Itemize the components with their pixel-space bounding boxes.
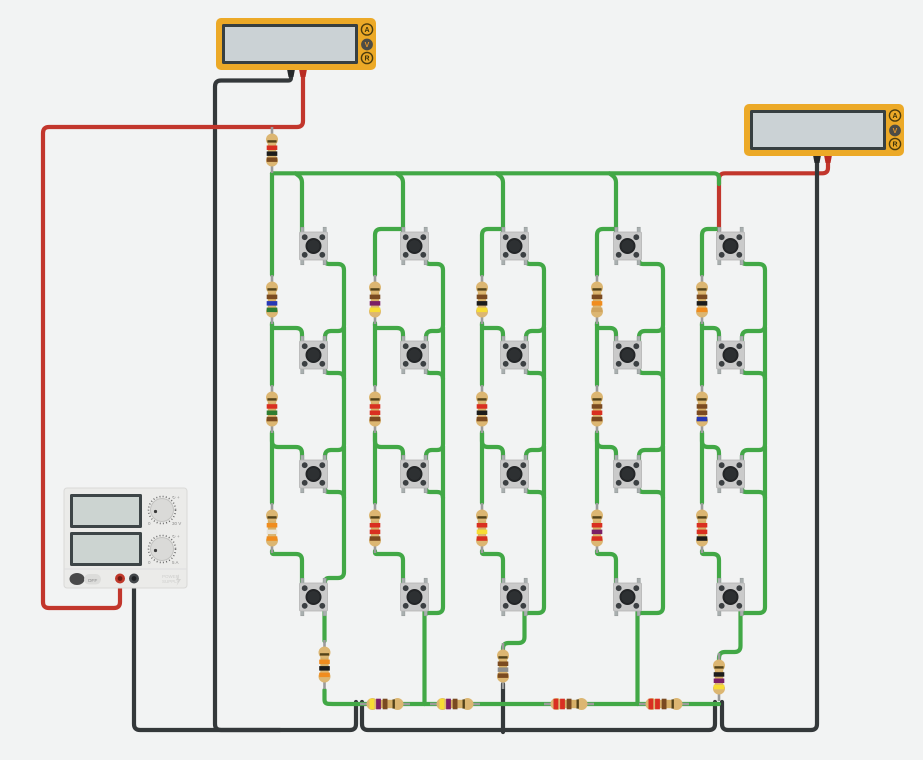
resistor R ladder col1 b <box>266 385 278 433</box>
wire green: tap col1 row3 <box>272 432 302 463</box>
svg-text:OFF: OFF <box>88 578 98 584</box>
wire green: tap col1 row4 <box>272 551 302 586</box>
wire green: tap col4 row4 <box>597 551 616 586</box>
wire green: tap col2 row3 <box>375 432 403 463</box>
pushbutton S11 row1 col1 <box>300 227 328 265</box>
wire green: rail col2 seg3 <box>373 433 377 503</box>
wire green: rail col1 top segment <box>270 173 274 275</box>
wire green: tap col1 row2 <box>272 323 302 344</box>
wire green: tap col3 row2 <box>482 323 503 344</box>
resistor R ladder col3 c <box>476 503 488 553</box>
wire black: node G2 to node G3 <box>503 702 715 730</box>
pushbutton S44 row4 col4 <box>614 578 642 616</box>
wire green: tap col4 row3 <box>597 432 616 463</box>
wire green: rail col3 seg2 <box>480 324 484 385</box>
wire black: node G1 to node G2 <box>362 702 503 730</box>
wire green: chain col1 row1-row2 <box>325 256 344 344</box>
wire green: chain col4 row2-row3 <box>639 365 663 463</box>
multimeter M2 (right) <box>744 104 904 163</box>
wire green: tap col3 row4 <box>482 551 503 586</box>
wire green: top bus <box>272 173 719 184</box>
wire green: chain col3 row2-row3 <box>526 365 544 463</box>
wire green: chain col5 row3-row4 <box>742 484 765 613</box>
pushbutton S32 row3 col2 <box>401 455 429 493</box>
wire green: bus drop col1 <box>296 173 303 235</box>
wire green: bus drop col4 <box>610 173 617 235</box>
wire green: tap col5 row3 <box>702 432 719 463</box>
resistor R bottom 4 <box>639 698 689 710</box>
multimeter M1 (top) <box>216 18 376 77</box>
wire green: col3 out to R-col3-bottom <box>503 609 525 654</box>
pushbutton S24 row2 col4 <box>614 336 642 374</box>
resistor R col1 bottom <box>319 640 331 689</box>
resistor R ladder col4 c <box>591 503 603 553</box>
wire green: col2 out to bottom bus <box>422 609 426 704</box>
wire green: chain col3 vertical at row3 <box>542 446 546 498</box>
resistor R ladder col2 b <box>369 385 381 433</box>
wire green: chain col1 row2-row3 <box>325 365 344 463</box>
pushbutton S12 row1 col2 <box>401 227 429 265</box>
wire black: PSU GND to bottom bus <box>134 582 280 730</box>
resistor R ladder col3 b <box>476 385 488 433</box>
wire green: col4 out to bottom bus <box>635 609 639 704</box>
wire green: rail col5 seg3 <box>700 433 704 503</box>
resistor R ladder col5 c <box>696 503 708 553</box>
wire green: tap col5 row4 <box>702 551 719 586</box>
svg-text:5 A: 5 A <box>172 560 179 565</box>
wire green: tap col5 row2 <box>702 323 719 344</box>
wire green: chain col4 row1-row2 <box>639 256 663 344</box>
wire green: rail col1 seg2 <box>270 324 274 385</box>
resistor R bottom 2 <box>430 698 480 710</box>
wire green: tap col2 row2 <box>375 323 403 344</box>
wire green: chain col4 row3-row4 <box>639 484 663 613</box>
pushbutton S41 row4 col1 <box>300 578 328 616</box>
pushbutton S42 row4 col2 <box>401 578 429 616</box>
pushbutton S45 row4 col5 <box>717 578 745 616</box>
pushbutton S35 row3 col5 <box>717 455 745 493</box>
wire green: chain col3 vertical at row2 <box>542 327 546 379</box>
pushbutton S22 row2 col2 <box>401 336 429 374</box>
pushbutton S13 row1 col3 <box>501 227 529 265</box>
svg-text:A: A <box>892 113 897 120</box>
wire green: col1 out to R-col1-bottom <box>322 609 326 641</box>
wire green: rail col2 feed <box>375 229 403 275</box>
wire red: PSU V+ to multimeter1 red probe <box>43 75 303 608</box>
wire green: tap col3 row3 <box>482 432 503 463</box>
resistor R ladder col3 a <box>476 275 488 324</box>
svg-text:R: R <box>892 141 897 148</box>
wire green: rail col4 seg3 <box>595 433 599 503</box>
pushbutton S21 row2 col1 <box>300 336 328 374</box>
wire green: rail col2 seg2 <box>373 324 377 385</box>
svg-text:↻ +: ↻ + <box>172 495 180 500</box>
wire green: chain col5 vertical at row2 <box>763 327 767 379</box>
svg-text:A: A <box>364 27 369 34</box>
wire green: chain col3 row3-row4 <box>526 484 544 613</box>
resistor R ladder col5 a <box>696 275 708 324</box>
wire green: col5 out to R-col5-bottom <box>719 609 741 664</box>
wire green: rail col3 seg3 <box>480 433 484 503</box>
wire green: chain col5 row2-row3 <box>742 365 765 463</box>
wire green: bus drop col3 <box>497 173 504 235</box>
resistor R ladder col5 b <box>696 385 708 433</box>
svg-text:30 V: 30 V <box>172 521 181 526</box>
resistor R col5 bottom <box>713 653 725 701</box>
pushbutton S33 row3 col3 <box>501 455 529 493</box>
wire green: chain col2 row1-row2 <box>426 256 443 344</box>
wire green: chain col3 row1-row2 <box>526 256 544 344</box>
wire green: bottom bus <box>325 690 720 704</box>
pushbutton S23 row2 col3 <box>501 336 529 374</box>
resistor R ladder col4 a <box>591 275 603 324</box>
wire green: chain col5 vertical at row3 <box>763 446 767 498</box>
svg-text:V: V <box>893 128 898 135</box>
wire green: chain col2 row3-row4 <box>426 484 443 613</box>
wire green: chain col4 vertical at row3 <box>661 446 665 498</box>
resistor R ladder col1 a <box>266 275 278 324</box>
pushbutton S15 row1 col5 <box>717 227 745 265</box>
pushbutton S43 row4 col3 <box>501 578 529 616</box>
wire green: tap col4 row2 <box>597 323 616 344</box>
resistor R ladder col2 c <box>369 503 381 553</box>
wire green: chain col1 row3-row4 <box>325 484 344 586</box>
svg-text:V: V <box>365 42 370 49</box>
pushbutton S25 row2 col5 <box>717 336 745 374</box>
resistor R col3 bottom <box>497 643 509 689</box>
resistor R1 top feed <box>266 127 278 173</box>
wire red: multimeter2 red probe to button col5 row1 <box>719 162 828 231</box>
wire green: rail col5 seg2 <box>700 324 704 385</box>
resistor R bottom 3 <box>544 698 594 710</box>
power supply P1 <box>64 488 187 588</box>
wire green: rail col1 seg3 <box>270 433 274 503</box>
pushbutton S34 row3 col4 <box>614 455 642 493</box>
resistor R bottom 1 <box>360 698 410 710</box>
wire green: bus drop col2 <box>397 173 404 235</box>
wire green: chain col5 row1-row2 <box>742 256 765 344</box>
wire green: rail col4 feed <box>597 229 616 275</box>
pushbutton S31 row3 col1 <box>300 455 328 493</box>
svg-text:↻ +: ↻ + <box>172 534 180 539</box>
wire black: node G3 to multimeter2 COM <box>722 162 817 730</box>
wire green: chain col4 vertical at row2 <box>661 327 665 379</box>
wire green: chain col2 vertical at row2 <box>441 327 445 379</box>
wire black: multimeter1 COM to node G1 <box>215 75 356 730</box>
wire black riser: R-col3-bottom to node G2 <box>501 684 505 732</box>
wire green: chain col2 vertical at row3 <box>441 446 445 498</box>
pushbutton S14 row1 col4 <box>614 227 642 265</box>
wire green: chain col1 vertical at row3 <box>342 446 346 498</box>
svg-text:R: R <box>364 55 369 62</box>
wire green: chain col2 row2-row3 <box>426 365 443 463</box>
wire green: rail col3 feed <box>482 229 503 275</box>
wire green: tap col2 row4 <box>375 551 403 586</box>
resistor R ladder col2 a <box>369 275 381 324</box>
resistor R ladder col4 b <box>591 385 603 433</box>
wire green: chain col1 vertical at row2 <box>342 327 346 379</box>
resistor R ladder col1 c <box>266 503 278 553</box>
wire green: rail col5 feed <box>702 229 719 275</box>
wire green: rail col4 seg2 <box>595 324 599 385</box>
